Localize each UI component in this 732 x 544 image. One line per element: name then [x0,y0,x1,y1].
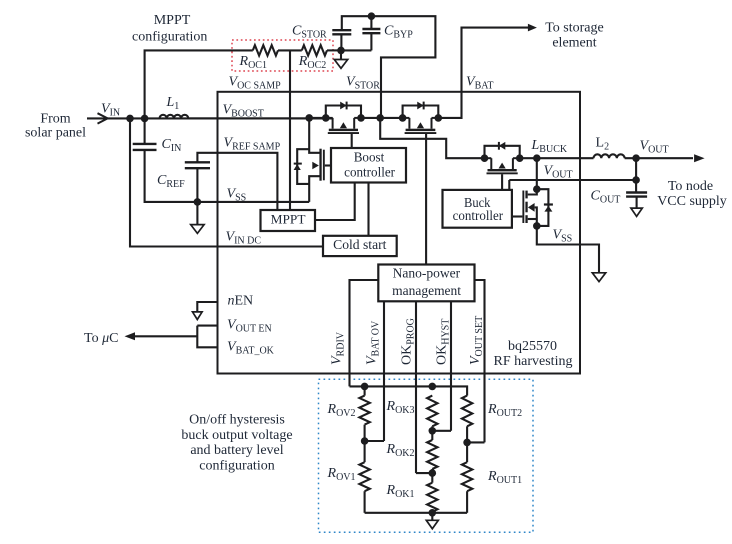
wire CREF bottom lead [196,168,198,202]
node top rail CBYP junction [368,12,376,20]
wire COUT top lead [635,180,637,193]
label Boost controller [344,150,395,180]
wire L1 to VBOOST pin [189,117,310,119]
node VBOOST MPPT-fet junction [305,114,313,122]
node VOUT [632,154,640,162]
svg-text:buck output voltage: buck output voltage [181,428,292,443]
wire M1 to VSTOR node [361,117,380,119]
arrowhead VIN input [98,113,108,123]
node bottom rail ground [429,509,437,517]
svg-text:From: From [40,112,70,127]
arrowhead VOUT output [694,154,705,162]
wire VOUT SET [475,280,485,442]
ground below ROC2 node [334,60,347,69]
svg-text:Boost: Boost [354,150,385,165]
wire CSTOR node to CBYP lead [341,49,371,51]
wire divider bottom rail [365,512,468,514]
wire OK HYST [450,301,452,431]
svg-text:To node: To node [668,179,713,194]
svg-text:controller: controller [344,165,395,180]
node M2 right terminal [435,114,443,122]
red dotted box MPPT configuration [232,40,333,71]
node LBUCK [533,154,541,162]
svg-text:controller: controller [453,208,504,223]
svg-text:Nano-power: Nano-power [393,266,461,281]
label From solar panel [25,112,86,141]
node M5 drain [533,185,541,193]
resistor ROK3 [427,396,437,427]
svg-text:To storage: To storage [545,21,604,36]
wire VOUT EN stub [197,325,217,327]
svg-text:On/off hysteresis: On/off hysteresis [189,413,285,428]
arrowhead to microcontroller [125,332,136,340]
blue dotted box resistor configuration [319,379,534,532]
wire VSS rail [197,201,309,203]
label On/off hysteresis description [181,413,292,474]
wire ROC1 to ROC2 [278,49,302,51]
svg-text:bq25570: bq25570 [508,339,557,354]
ground nEN [193,312,203,320]
ground below COUT [631,208,642,216]
wire VOC SAMP vertical [289,50,291,210]
svg-text:nEN: nEN [228,294,254,309]
box Boost controller [331,148,406,183]
wire ROUT1 bottom [466,491,468,513]
wire nEN stub [197,302,217,312]
node ROC2 CSTOR junction [337,47,345,55]
svg-text:RF harvesting: RF harvesting [494,354,573,369]
node ROK3 ROK2 junction [429,427,437,435]
wire ROV2 top lead [364,386,366,395]
svg-text:configuration: configuration [132,30,207,45]
wire VOUT pin wire [509,179,636,181]
box MPPT [261,210,316,231]
node M3 right terminal [516,154,524,162]
node VOUT COUT junction [632,176,640,184]
resistor ROUT2 [462,396,472,427]
transistor M1 boost rectifier PMOS [326,102,361,134]
label bq25570 RF harvesting [494,339,573,369]
node M5 source [533,222,541,230]
wire CSTOR top lead and top rail [342,16,436,118]
wire CIN bottom to VSS rail [145,150,198,202]
wire VOUT SET jog [467,441,484,443]
wire ROV2 to ROV1 [364,425,366,463]
label To node VCC supply [657,179,727,209]
wire VIN DC [130,118,323,246]
wire divider top rail [350,386,468,395]
resistor ROV2 [359,396,369,425]
resistor ROUT1 [462,462,472,491]
wire VSTOR to buck switch [380,118,484,158]
node ROV junction [361,437,369,445]
IC bq25570 outline box [218,92,581,374]
svg-text:management: management [392,283,461,298]
wire ROV1 bottom [364,491,366,513]
wire VBAT OV [383,301,385,441]
wire CBYP top lead [370,16,372,29]
box Nano-power management [378,265,474,302]
wire OK HYST jog [432,430,451,432]
node CREF VSS junction [194,198,202,206]
wire VOUT down to COUT node [635,158,637,180]
wire ground lead divider [431,513,433,521]
node ROK3 top [429,383,437,391]
wire M3 to LBUCK node [520,157,594,159]
svg-text:Cold start: Cold start [333,237,387,252]
capacitor CSTOR [332,29,351,31]
box Buck controller [443,190,512,228]
wire M3 gate to buck controller [501,174,503,190]
wire ground lead below node [340,50,342,59]
wire M1 gate to boost controller [351,134,353,148]
wire VBAT riser [438,28,528,118]
capacitor CREF [185,161,210,163]
wire VBAT_OK stub [197,326,217,348]
svg-text:VCC supply: VCC supply [657,194,727,209]
ground VSS right [592,273,605,282]
transistor M4 MPPT sample PMOS [294,118,331,202]
resistor ROC2 [302,45,327,55]
svg-text:element: element [552,36,596,51]
node VIN junction 1 [126,115,134,123]
wire CSTOR bottom lead [340,34,342,50]
wire ROK2 to ROK1 [431,469,433,483]
capacitor CIN [133,143,157,145]
ground below CREF [191,225,204,234]
inductor L2 [594,154,625,158]
label To storage element [545,21,604,51]
wire ROUT2 to ROUT1 [466,426,468,462]
transistor M2 battery switch PMOS [403,102,439,134]
node ROV2 top [361,383,369,391]
wire LBUCK to NMOS drain [536,158,538,189]
node M1 right terminal [357,114,365,122]
box Cold start [323,236,397,256]
svg-text:MPPT: MPPT [154,13,191,28]
wire OK PROG jog [416,472,432,474]
wire ROC2 to CSTOR node [327,49,341,51]
capacitor CBYP [362,28,380,30]
wire VRDIV [350,280,379,386]
ground divider [426,520,438,529]
svg-text:solar panel: solar panel [25,126,86,141]
transistor M5 buck sync NMOS [512,189,553,226]
wire ground lead CREF [196,202,198,225]
node ROUT junction [463,439,471,447]
wire VOUT sense into buck controller [508,180,510,190]
wire VBAT OV jog [365,440,384,442]
node VIN junction 2 [141,115,149,123]
resistor ROK2 [427,440,437,469]
node M2 left terminal [399,114,407,122]
wire boost controller to cold start [367,183,369,236]
node ROK2 ROK1 junction [429,469,437,477]
capacitor COUT [626,191,647,193]
wire CBYP bottom lead [370,33,372,50]
svg-text:and battery level: and battery level [190,443,283,458]
wire COUT bottom lead [636,197,638,209]
resistor ROK1 [427,483,437,512]
wire VSS to ground right [537,226,599,273]
label Nano-power management [392,266,461,299]
svg-text:To μC: To μC [84,331,118,346]
node VSTOR [376,114,384,122]
wire to microcontroller [135,335,197,337]
svg-text:configuration: configuration [199,458,274,473]
wire CREF top lead to VREF SAMP [197,153,277,210]
wire OK PROG [415,301,417,473]
node M3 left terminal [481,154,489,162]
resistor ROV1 [359,462,369,491]
wire VSTOR to M2 [380,117,402,119]
svg-text:MPPT: MPPT [271,211,306,226]
wire MPPT to boost controller [315,183,355,221]
wire VBOOST dot to M1 [309,117,326,119]
arrowhead to storage [528,24,537,32]
inductor L1 [160,115,189,119]
label Buck controller [453,195,504,223]
wire CIN top lead [144,118,146,143]
wire M2 gate to nano-power [425,134,427,265]
label MPPT configuration [132,13,207,45]
resistor ROC1 [253,45,278,55]
wire VIN to ROC1 [145,50,253,118]
node M1 left terminal [322,114,330,122]
transistor M3 buck switch PMOS [485,142,520,174]
wire ROK3 to ROK2 [431,426,433,440]
wire L2 to VOUT arrow [625,157,693,159]
wire VIN input [87,117,333,119]
